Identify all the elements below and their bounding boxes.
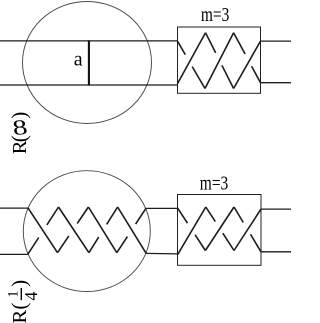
svg-text:): ) <box>7 112 31 119</box>
svg-text:4: 4 <box>21 292 41 301</box>
svg-text:1: 1 <box>6 290 22 297</box>
circle boundary of tangle R(1/4) <box>23 171 150 292</box>
vertical bar (infinity tangle) <box>88 40 90 85</box>
svg-text:): ) <box>7 280 31 287</box>
label R(infinity), rotated <box>7 112 31 155</box>
bottom strand line (left) <box>0 84 178 86</box>
twist box (bottom, m=3) <box>178 195 262 266</box>
svg-text:(: ( <box>7 303 31 310</box>
bottom strand line (bottom fig, right) <box>261 251 291 253</box>
svg-text:R: R <box>9 310 31 323</box>
twist strands top box: strand 1 (under at c1,c3) <box>178 41 186 54</box>
twist strands bottom box: strand 1 (under at d1,d3) <box>178 208 188 223</box>
twist strands bottom box: strand 2 (under at d2) <box>178 207 206 255</box>
top strand line (bottom fig, right) <box>261 208 291 210</box>
circle boundary of tangle R(infinity) <box>23 2 152 124</box>
top strand line (bottom fig, left) <box>0 207 28 209</box>
label R(1/4), rotated <box>6 280 42 323</box>
top connector line (circle to box) <box>146 207 178 209</box>
svg-text:m=3: m=3 <box>200 172 229 194</box>
svg-text:a: a <box>74 48 83 70</box>
bottom connector line (circle to box) <box>146 252 177 255</box>
svg-text:m=3: m=3 <box>201 4 230 26</box>
twist box (top, m=3) <box>178 27 261 93</box>
top strand line (right) <box>261 40 292 42</box>
circle twist: strand T (under at k2,k4) <box>28 208 57 253</box>
twist strands top box: strand 2 (under at c2) <box>178 33 206 84</box>
top strand line (left) <box>0 40 178 42</box>
bottom strand line (bottom fig, left) <box>0 253 28 255</box>
bottom strand line (right) <box>261 82 292 84</box>
circle twist: strand B (under at k1,k3) <box>28 238 39 255</box>
